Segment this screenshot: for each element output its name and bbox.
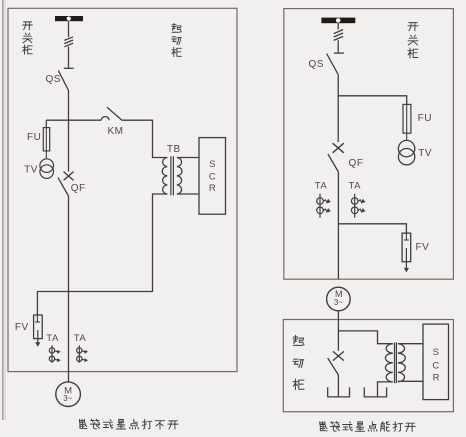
svg-text:TA: TA	[348, 180, 361, 191]
svg-text:R: R	[433, 372, 440, 383]
svg-text:S: S	[433, 347, 439, 358]
svg-text:FU: FU	[418, 113, 432, 124]
svg-text:C: C	[432, 360, 439, 371]
svg-text:FV: FV	[15, 322, 29, 333]
svg-text:TA: TA	[46, 333, 59, 344]
svg-text:TV: TV	[418, 148, 432, 159]
svg-text:3~: 3~	[334, 298, 343, 307]
svg-text:QF: QF	[71, 183, 86, 194]
svg-text:TA: TA	[315, 180, 328, 191]
svg-text:FV: FV	[416, 242, 430, 253]
svg-text:KM: KM	[108, 126, 124, 137]
svg-text:QF: QF	[349, 158, 364, 169]
svg-text:3~: 3~	[63, 394, 72, 403]
svg-text:FU: FU	[27, 132, 41, 143]
svg-text:TA: TA	[74, 333, 87, 344]
svg-text:R: R	[209, 183, 216, 194]
svg-text:C: C	[209, 171, 216, 182]
svg-text:QS: QS	[45, 74, 60, 85]
svg-text:S: S	[209, 159, 215, 170]
svg-text:TB: TB	[167, 144, 181, 155]
svg-text:QS: QS	[308, 59, 323, 70]
svg-text:TV: TV	[24, 165, 38, 176]
